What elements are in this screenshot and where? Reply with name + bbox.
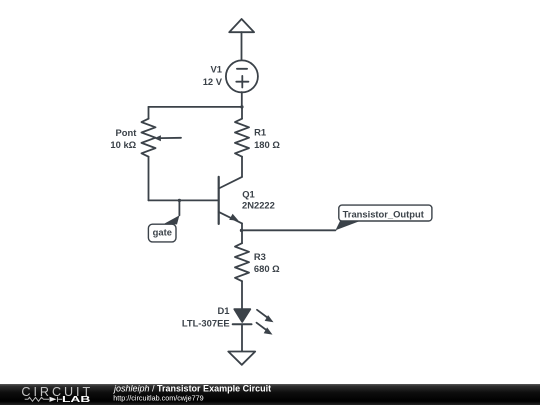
- svg-text:gate: gate: [153, 227, 172, 238]
- svg-text:10 kΩ: 10 kΩ: [110, 139, 136, 150]
- svg-text:V1: V1: [211, 64, 222, 75]
- svg-text:R3: R3: [254, 251, 266, 262]
- svg-text:2N2222: 2N2222: [242, 200, 275, 211]
- svg-text:http://circuitlab.com/cwje779: http://circuitlab.com/cwje779: [113, 393, 203, 402]
- svg-text:680 Ω: 680 Ω: [254, 263, 280, 274]
- svg-text:Q1: Q1: [242, 188, 255, 199]
- svg-text:R1: R1: [254, 127, 266, 138]
- svg-text:LTL-307EE: LTL-307EE: [182, 317, 230, 328]
- svg-text:joshleiph / Transistor Example: joshleiph / Transistor Example Circuit: [113, 384, 271, 394]
- svg-text:Pont: Pont: [116, 127, 137, 138]
- svg-text:Transistor_Output: Transistor_Output: [343, 209, 424, 220]
- svg-text:D1: D1: [218, 305, 230, 316]
- svg-text:12 V: 12 V: [203, 76, 223, 87]
- svg-text:180 Ω: 180 Ω: [254, 139, 280, 150]
- svg-text:LAB: LAB: [62, 395, 91, 404]
